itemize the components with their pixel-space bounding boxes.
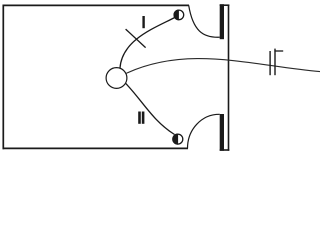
plate thick bar bottom xyxy=(220,114,224,151)
chamber box top edge xyxy=(3,4,190,6)
top funnel arc xyxy=(189,5,220,37)
middle ray curve xyxy=(126,59,320,74)
chamber box bottom edge xyxy=(3,147,189,149)
source circle xyxy=(106,68,127,89)
ray II curve xyxy=(126,83,175,134)
middle ray mark horizontal arm xyxy=(274,50,283,52)
middle ray right tick xyxy=(274,49,276,76)
dot I circle xyxy=(174,10,184,20)
dot I left half fill xyxy=(174,10,179,21)
dot II circle xyxy=(173,134,183,144)
plate outline top connector xyxy=(220,4,230,6)
ray I curve xyxy=(120,18,175,69)
label II bar 2 xyxy=(142,112,145,124)
tick on ray I xyxy=(126,29,146,47)
label I xyxy=(142,16,144,28)
label II bar 1 xyxy=(138,112,141,124)
plate thick bar top xyxy=(220,4,224,39)
plate outline right edge xyxy=(228,5,230,151)
dot II left half fill xyxy=(173,134,179,145)
chamber box left edge xyxy=(2,5,4,150)
bottom funnel arc xyxy=(188,114,220,148)
plate outline bottom connector xyxy=(220,149,230,151)
middle ray left tick xyxy=(269,51,271,75)
